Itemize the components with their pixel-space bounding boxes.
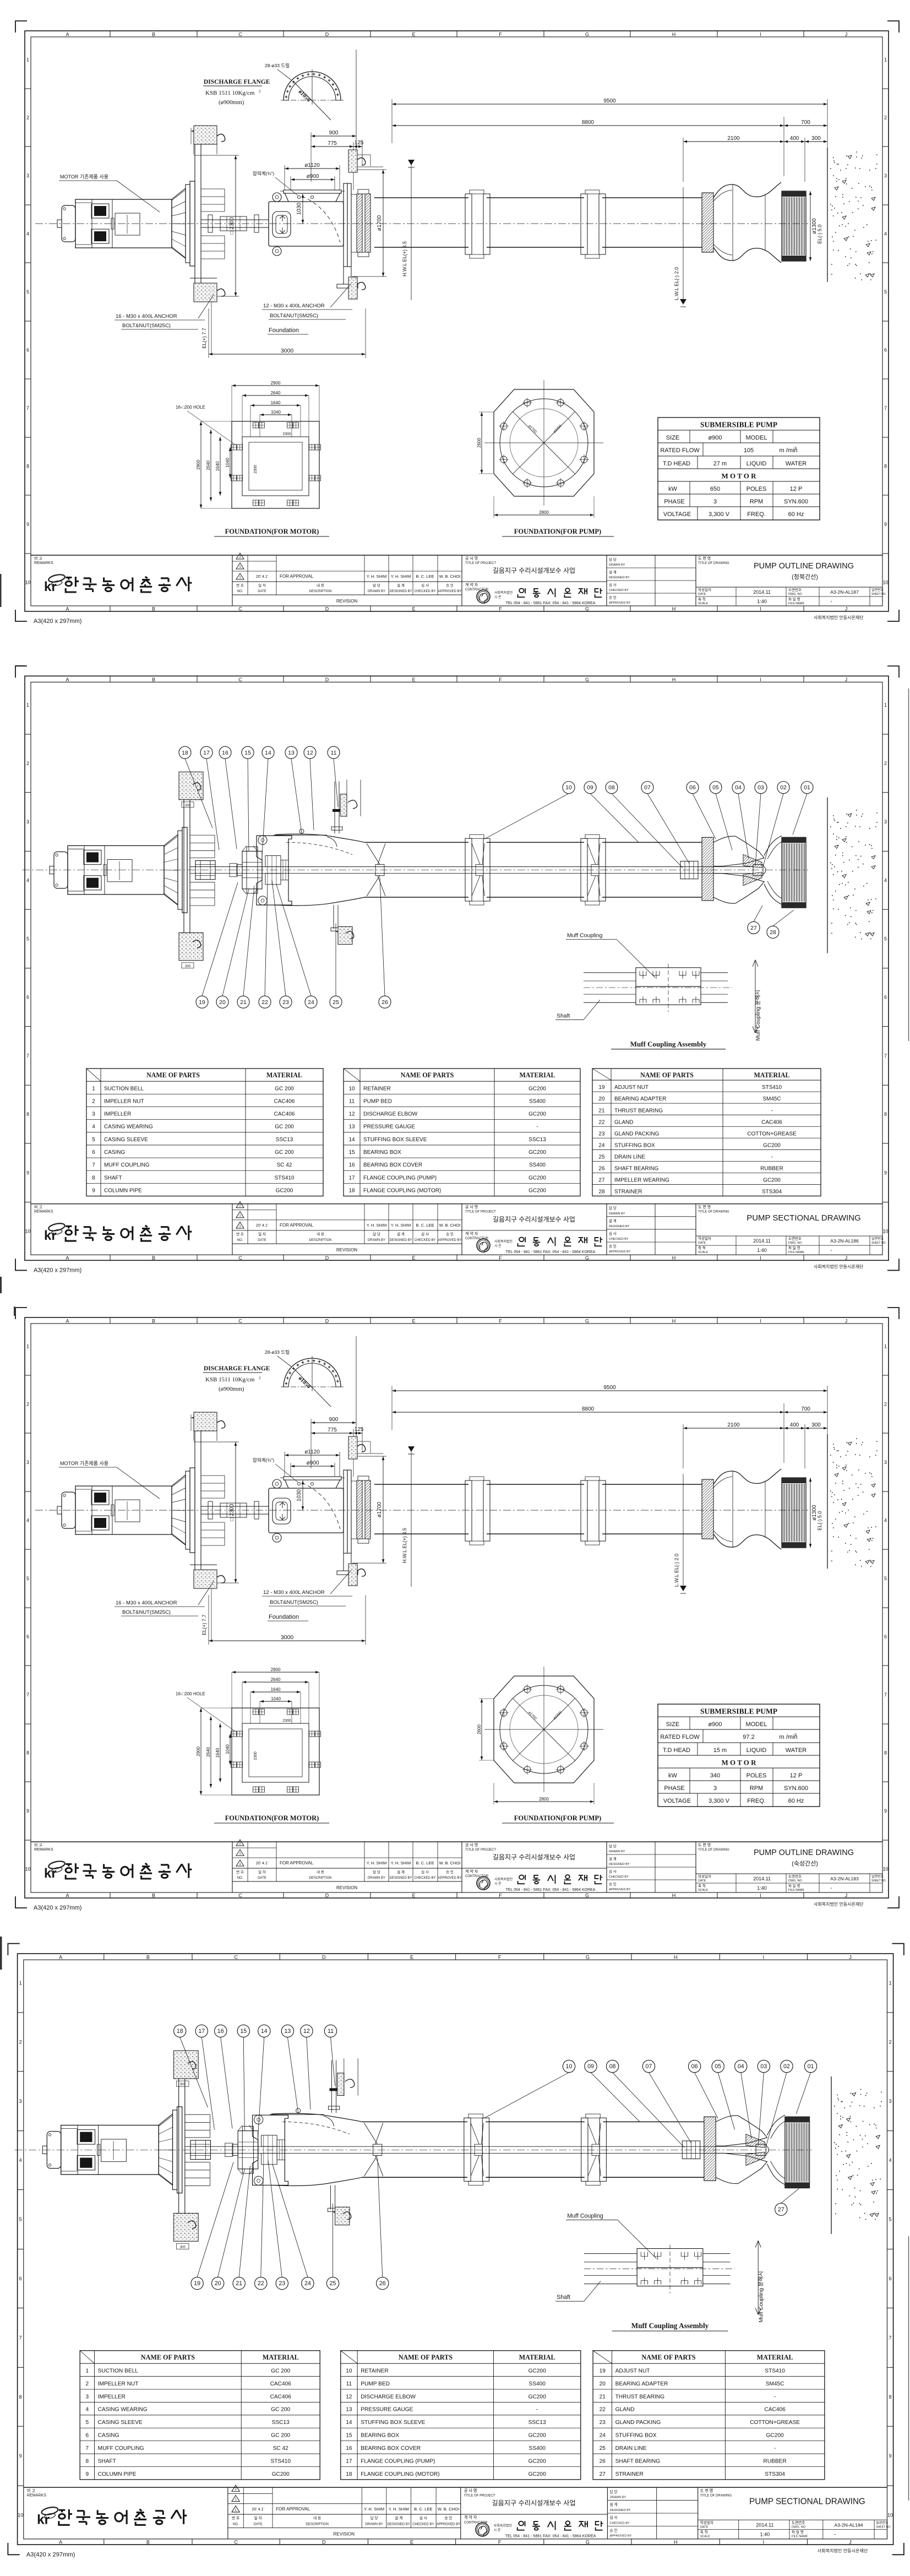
- svg-text:650: 650: [710, 486, 720, 492]
- page edge artifacts: [0, 574, 2, 607]
- balloon 28: [767, 926, 779, 938]
- svg-text:PUMP SECTIONAL DRAWING: PUMP SECTIONAL DRAWING: [746, 1213, 861, 1223]
- svg-text:A3-2N-AL184: A3-2N-AL184: [834, 2522, 863, 2528]
- svg-text:A3-2N-AL187: A3-2N-AL187: [830, 589, 859, 595]
- svg-text:(숙성간선): (숙성간선): [792, 1860, 818, 1867]
- sheet 3 : pump outline drawing (AL183): [15, 1308, 899, 1911]
- balloon 27: [775, 2203, 787, 2215]
- svg-text:PUMP OUTLINE DRAWING: PUMP OUTLINE DRAWING: [754, 562, 854, 571]
- svg-text:A3-2N-AL183: A3-2N-AL183: [830, 1876, 859, 1881]
- svg-text:105: 105: [744, 447, 754, 454]
- svg-text:A3-2N-AL186: A3-2N-AL186: [830, 1238, 859, 1244]
- svg-text:27: 27: [778, 2206, 784, 2213]
- svg-text:PUMP OUTLINE DRAWING: PUMP OUTLINE DRAWING: [754, 1848, 854, 1857]
- sheet 4 : pump sectional drawing (AL184): [8, 1944, 903, 2558]
- sheet 2 : pump sectional drawing (AL186): [15, 666, 899, 1273]
- svg-text:97.2: 97.2: [743, 1734, 754, 1740]
- svg-text:27: 27: [750, 925, 757, 931]
- sheet 1 : pump outline drawing (AL187): [15, 21, 899, 625]
- svg-text:15 m: 15 m: [713, 1747, 727, 1754]
- svg-text:27 m: 27 m: [713, 460, 727, 467]
- svg-text:PUMP SECTIONAL DRAWING: PUMP SECTIONAL DRAWING: [749, 2497, 865, 2507]
- svg-text:340: 340: [710, 1772, 720, 1779]
- balloon 27: [748, 921, 760, 934]
- svg-text:(청북간선): (청북간선): [792, 573, 818, 581]
- svg-text:28: 28: [770, 929, 776, 936]
